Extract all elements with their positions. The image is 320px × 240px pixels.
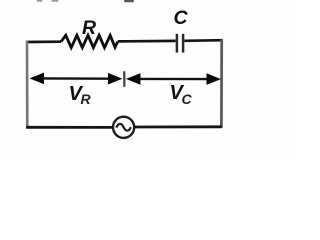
capacitor C1 right plate [182, 34, 185, 53]
arrow VC right head [207, 73, 221, 85]
arrow VR shaft [39, 77, 113, 80]
stray scan mark top 1 [37, 0, 43, 2]
wire right wall [220, 40, 223, 128]
wire bottom-left segment [26, 126, 113, 129]
arrow VR left head [30, 73, 45, 85]
wire left wall [26, 41, 29, 128]
node tick between arrows [123, 71, 125, 87]
wire top-right segment [184, 39, 222, 42]
capacitor C1 left plate [176, 34, 179, 53]
arrow VR right head [108, 73, 122, 85]
wire top-middle segment [118, 40, 176, 43]
stray scan mark top 3 [124, 0, 134, 2]
ac source V1 sine wave [116, 124, 130, 131]
svg-text:C: C [174, 7, 189, 29]
svg-text:R: R [82, 17, 96, 39]
resistor R1 zigzag [61, 35, 118, 47]
stray scan mark top 2 [52, 0, 59, 2]
svg-text:C: C [182, 91, 193, 107]
arrow VC left head [126, 73, 141, 85]
wire bottom-right segment [134, 125, 222, 128]
arrow VC shaft [136, 78, 211, 81]
svg-text:R: R [81, 91, 92, 107]
wire top-left segment [26, 40, 61, 43]
ac source V1 circle [113, 117, 134, 138]
